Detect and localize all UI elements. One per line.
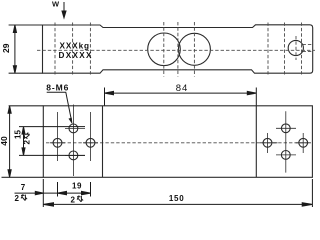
svg-text:40: 40 — [0, 136, 9, 146]
svg-text:19: 19 — [72, 182, 82, 191]
svg-text:150: 150 — [169, 194, 185, 203]
svg-text:7: 7 — [21, 183, 26, 192]
svg-text:2: 2 — [15, 194, 20, 203]
svg-text:2: 2 — [22, 140, 31, 145]
svg-text:XXXkg: XXXkg — [60, 42, 90, 51]
svg-text:15: 15 — [14, 130, 23, 139]
svg-text:W: W — [52, 0, 60, 9]
svg-text:DXXXX: DXXXX — [59, 51, 93, 60]
svg-text:29: 29 — [1, 43, 11, 53]
svg-text:84: 84 — [176, 83, 189, 94]
svg-text:2: 2 — [71, 195, 76, 204]
svg-text:8-M6: 8-M6 — [46, 83, 69, 93]
